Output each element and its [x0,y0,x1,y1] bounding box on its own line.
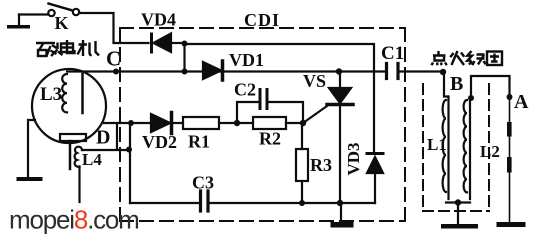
rail C1 to node B [400,70,444,72]
wire R2 to node [286,122,303,124]
svg-text:VD3: VD3 [344,142,363,175]
magneto bottom terminal box [60,134,86,141]
node C junction [113,69,119,75]
capacitor C1 [387,64,399,79]
spark plug line [507,97,512,222]
switch K [48,4,79,17]
ground (spark plug) [497,222,526,227]
coil bottom join [446,201,470,203]
svg-text:VD1: VD1 [229,50,264,70]
node R2/R3/gate [300,120,306,126]
svg-text:L4: L4 [82,150,102,169]
coil L3 [62,74,82,113]
coil L4 [75,147,82,202]
node L2 top [468,95,474,101]
short link [116,124,118,149]
svg-text:C3: C3 [192,173,214,193]
node A [507,94,513,100]
svg-text:R1: R1 [188,132,210,152]
diode VD4 [152,34,172,53]
svg-text:B: B [450,73,463,95]
coil L1 [443,97,449,199]
wire R3 to bottom rail [301,181,303,203]
D junction [128,120,134,126]
wire D down to bottom rail [129,123,131,203]
svg-text:L2: L2 [480,142,500,161]
ground (magneto left) [17,177,43,181]
wire magneto left to ground [28,120,35,177]
thyristor VS [327,72,353,203]
svg-text:C2: C2 [234,80,256,100]
main rail (node C) [67,70,385,72]
svg-text:C1: C1 [381,43,404,64]
wire B down to L1 [444,72,449,97]
capacitor C2 branch [237,90,303,124]
ground (ignition coil) [441,203,478,229]
svg-text:A: A [514,91,529,113]
diode VD3 [367,72,383,204]
coil L2 [464,97,470,199]
bottom rail [130,202,199,204]
svg-text:VD4: VD4 [141,10,176,30]
gate wire [303,106,327,123]
wire VD4 node across top to C1 junction [185,44,375,72]
svg-text:L1: L1 [427,135,447,154]
magneto circle [32,69,106,143]
node R1/R2/C2 [234,120,240,126]
wire node to R3 [301,123,303,149]
wire ground to switch [19,13,48,15]
D node wire from magneto to VD2 [104,122,151,124]
svg-text:mopei8.com: mopei8.com [9,205,139,235]
bottom rail right of C3 [210,202,375,204]
svg-text:R2: R2 [259,129,281,149]
label 点火线圈 [432,51,447,65]
junction L4 link [126,147,132,153]
resistor R2 [253,117,286,129]
svg-text:R3: R3 [310,155,332,175]
node after VD4 [182,41,188,47]
wire L4 to CDI [82,149,129,151]
wire L2 top over to A line [471,76,510,98]
wire VD4 anode to node [171,42,184,44]
wire R1 to node [219,122,253,124]
capacitor C3 [201,191,209,211]
resistor R3 [296,149,308,181]
svg-text:C: C [106,47,121,71]
ground (CDI internal) [331,205,354,228]
node B [440,69,446,75]
label 磁电机 [36,43,63,57]
wire switch to VD4 [80,13,149,43]
resistor R1 [183,117,219,129]
wire magneto box to L4 core [69,141,72,169]
diode VD1 [203,61,223,80]
svg-text:L3: L3 [40,84,62,105]
ignition coil box [423,84,489,211]
svg-text:VS: VS [303,71,326,91]
svg-text:K: K [55,13,69,33]
node VS cathode on rail [337,200,343,206]
svg-text:VD2: VD2 [142,132,177,152]
wire node down to rail [183,44,185,72]
CDI box [120,28,405,221]
svg-text:CDI: CDI [244,10,280,30]
ground (top left, kill switch return) [7,15,30,29]
svg-text:D: D [96,127,110,149]
diode VD2 [151,113,183,134]
node VS anode on rail [336,68,342,74]
